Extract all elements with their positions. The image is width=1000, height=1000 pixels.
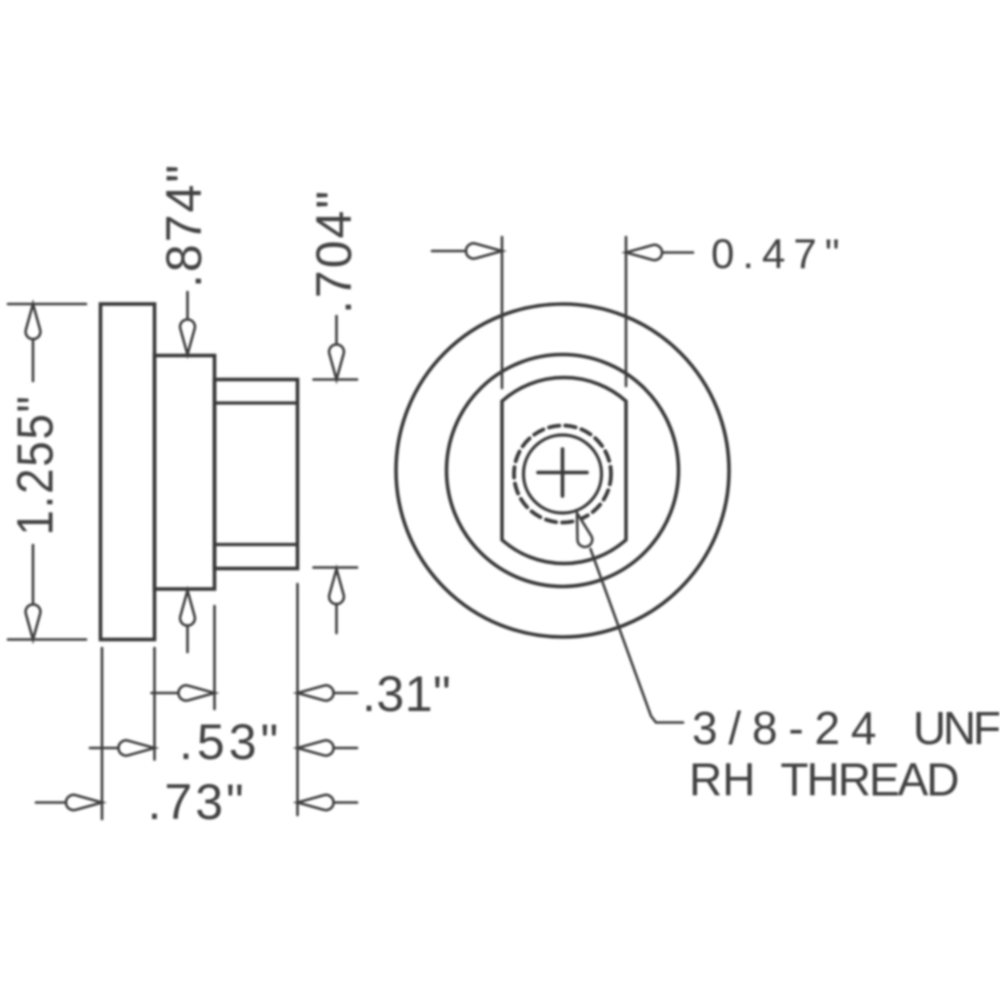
body rectangle <box>155 356 215 590</box>
right arrowhead left <box>298 740 334 755</box>
crosshair vertical <box>561 449 565 496</box>
middle circle (body OD) <box>447 355 679 587</box>
right arrowhead left <box>298 795 334 810</box>
ext tick top <box>314 378 358 381</box>
left arrowhead right <box>178 685 214 700</box>
top arrowhead down <box>329 344 344 379</box>
ext line flange right <box>153 648 156 760</box>
bottom arrowhead up <box>180 591 195 626</box>
svg-text:.704": .704" <box>306 189 362 314</box>
bottom arrow line <box>186 622 189 652</box>
left arrowhead right <box>66 795 102 810</box>
right arrow tail <box>326 801 357 804</box>
ext tick bottom <box>314 566 358 569</box>
ext line flange left <box>101 648 104 819</box>
ext line body right <box>213 606 216 709</box>
svg-text:1.255": 1.255" <box>7 394 64 535</box>
right arrow tail <box>326 747 357 750</box>
svg-text:.73": .73" <box>148 774 247 830</box>
svg-text:.53": .53" <box>179 714 282 770</box>
flange rectangle <box>101 304 155 640</box>
right arrow tail <box>326 692 357 695</box>
dim line bottom segment <box>32 545 35 637</box>
leader line <box>591 549 684 723</box>
bottom arrowhead up <box>329 569 344 604</box>
arrow down <box>26 604 41 639</box>
svg-text:3/8-24 UNF: 3/8-24 UNF <box>692 702 1000 754</box>
svg-text:0.47": 0.47" <box>711 230 848 277</box>
outer circle (flange OD) <box>396 304 729 637</box>
left arrowhead right <box>118 740 154 755</box>
top arrow line <box>335 316 338 347</box>
right arrowhead left <box>626 245 662 260</box>
svg-text:.874": .874" <box>156 163 212 288</box>
ext line left <box>501 237 504 388</box>
thread dashed circle <box>514 426 611 523</box>
bottom arrow line <box>335 601 338 633</box>
left arrow tail <box>152 692 187 695</box>
right arrowhead left <box>298 685 334 700</box>
stud thread line bottom <box>215 543 298 546</box>
top arrow line <box>186 292 189 322</box>
stud rectangle <box>215 380 298 569</box>
left arrow tail <box>432 250 470 253</box>
crosshair horizontal <box>538 471 587 475</box>
leader arrowhead at thread circle <box>570 511 594 549</box>
right arrow tail <box>655 251 693 254</box>
ext line top <box>8 303 86 306</box>
left arrowhead right <box>466 243 502 258</box>
top arrowhead down <box>180 319 195 354</box>
left arrow tail <box>36 801 73 804</box>
ext line bottom <box>8 638 86 641</box>
ext line right <box>625 237 628 386</box>
obround boss <box>502 378 626 564</box>
thread hole solid circle <box>524 435 602 513</box>
svg-text:.31": .31" <box>362 666 451 722</box>
left arrow tail <box>90 747 126 750</box>
arrow up <box>26 304 41 339</box>
center dot <box>560 470 565 475</box>
svg-text:RH THREAD: RH THREAD <box>689 754 958 806</box>
stud thread line top <box>215 401 298 404</box>
ext line stud end <box>296 584 299 815</box>
dim line top segment <box>32 306 35 381</box>
